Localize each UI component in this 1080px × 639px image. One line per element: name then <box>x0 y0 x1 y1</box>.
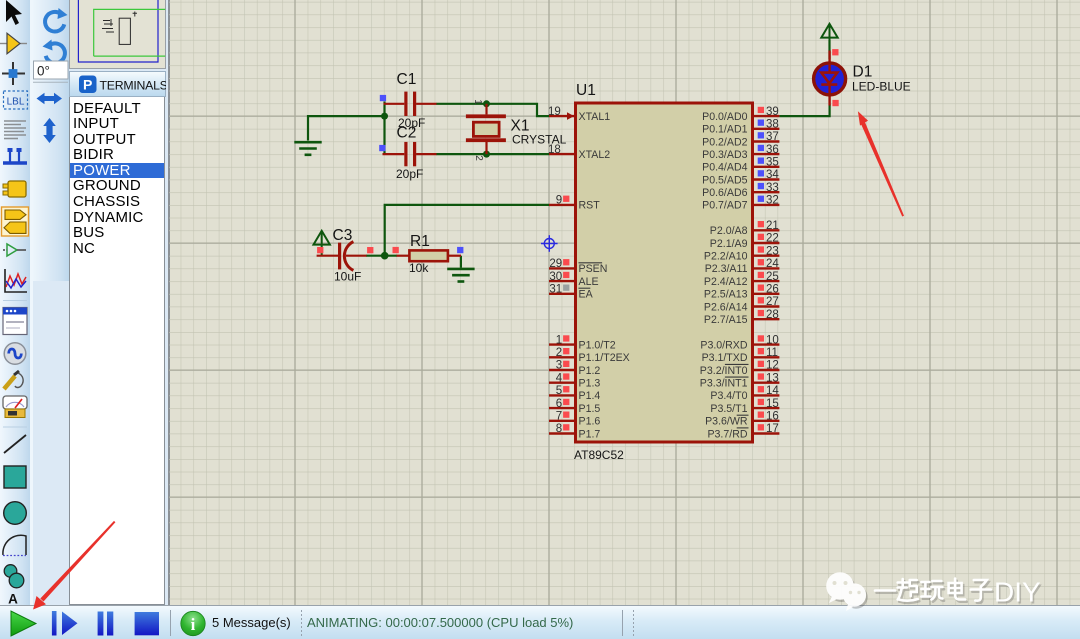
X1 pin number 1 <box>472 99 483 105</box>
X1 pin number 2 <box>473 155 484 161</box>
preview mini schematic <box>102 12 137 45</box>
wire net XTAL1 (C1 right to U1 pin19) <box>436 104 549 116</box>
C1 state square <box>380 95 386 101</box>
pin 15 P3.5/T1 (right) <box>710 398 779 415</box>
toolbar icon 2D box mode <box>4 466 26 488</box>
pin 16 P3.6/WR (right) <box>705 411 779 428</box>
D1 state square top <box>832 49 838 55</box>
junction node A (C1/C2/ground) <box>381 113 388 120</box>
toolbar icon terminals mode (selected) <box>2 207 29 236</box>
power terminal above C3 <box>314 231 330 256</box>
pin 11 P3.1/TXD (right) <box>702 347 780 364</box>
value 10uF <box>334 270 361 284</box>
pin 38 P0.1/AD1 (right) <box>702 119 779 136</box>
stop button <box>135 612 159 635</box>
toolbar icon component mode <box>0 33 27 54</box>
LED D1 <box>814 51 846 106</box>
pin 10 P3.0/RXD (right) <box>700 334 779 351</box>
rotate clockwise button <box>45 8 67 32</box>
pin 27 P2.6/A14 (right) <box>704 296 779 313</box>
svg-text:TERMINALS: TERMINALS <box>100 78 167 92</box>
preview view area (green) <box>94 9 166 56</box>
watermark text <box>875 577 1043 610</box>
step button <box>52 611 78 636</box>
R1 state square left <box>393 247 399 253</box>
label R1 <box>410 233 430 250</box>
value LED-BLUE <box>852 80 911 94</box>
origin marker <box>541 235 558 252</box>
annotation arrow 2 (to play button) <box>33 521 115 610</box>
pin 29 PSEN (left) <box>549 258 607 275</box>
label C3 <box>333 227 353 244</box>
pin 26 P2.5/A13 (right) <box>704 284 779 301</box>
pin 6 P1.5 (left) <box>549 398 600 415</box>
object selector list <box>69 97 165 605</box>
pin 8 P1.7 (left) <box>549 423 600 440</box>
toolbar icon voltage probe mode <box>4 371 23 389</box>
toolbar icon 2D text mode <box>8 592 18 607</box>
C3 state square left <box>317 247 323 253</box>
pin 13 P3.3/INT1 (right) <box>700 372 780 389</box>
toolbar icon tape recorder mode <box>3 308 27 335</box>
svg-text:P: P <box>83 77 92 93</box>
annotation arrow 1 (to LED) <box>858 111 904 216</box>
pin 9 RST (left) <box>549 195 600 212</box>
toolbar icon junction dot mode <box>2 62 25 85</box>
pin 33 P0.6/AD6 (right) <box>702 182 779 199</box>
pin 7 P1.6 (left) <box>549 411 600 428</box>
C2 state square <box>379 145 385 151</box>
pause button <box>98 612 114 636</box>
mirror vertical button <box>43 118 56 143</box>
overview preview panel <box>69 0 166 69</box>
toolbar separators <box>3 301 27 428</box>
toolbar icon instrument mode <box>3 396 27 418</box>
capacitor C2 <box>383 142 437 166</box>
wire to ground top-left <box>308 116 386 140</box>
toolbar icon selection cursor <box>6 0 22 25</box>
rotation angle box <box>33 61 68 82</box>
orientation toolbar column <box>32 0 69 281</box>
label U1 <box>576 82 596 99</box>
pin 2 P1.1/T2EX (left) <box>549 347 630 364</box>
value AT89C52 <box>574 448 624 462</box>
pin 31 EA (left) <box>549 284 594 301</box>
mirror horizontal button <box>37 93 63 104</box>
play button <box>11 611 36 636</box>
junction node B (C3/R1/RST) <box>381 252 389 260</box>
toolbar icon text script mode <box>4 121 26 139</box>
toolbar icon 2D arc mode <box>3 535 26 555</box>
pin 5 P1.4 (left) <box>549 385 600 402</box>
preview sheet border (blue) <box>78 0 158 62</box>
rotate anticlockwise button <box>43 40 65 64</box>
wire RST net (junction to U1 pin9) <box>385 205 549 256</box>
pin 12 P3.2/INT0 (right) <box>700 360 780 377</box>
R1 state square right <box>457 247 463 253</box>
toolbar icon graph mode <box>5 269 27 292</box>
pin 22 P2.1/A9 (right) <box>710 233 780 250</box>
pin 35 P0.4/AD4 (right) <box>702 157 779 174</box>
value CRYSTAL <box>512 133 567 147</box>
pin 14 P3.4/T0 (right) <box>710 385 779 402</box>
pin 36 P0.3/AD3 (right) <box>702 144 779 161</box>
toolbar icon 2D line mode <box>4 435 26 453</box>
pin 24 P2.3/A11 (right) <box>705 258 780 275</box>
pin 4 P1.3 (left) <box>549 372 600 389</box>
toolbar icon wire label mode <box>4 91 28 109</box>
junction node X1 pin1 <box>483 100 490 107</box>
label D1 <box>853 64 873 81</box>
pin 1 P1.0/T2 (left) <box>549 334 616 351</box>
grid pattern <box>169 0 1080 605</box>
crystal X1 <box>466 104 506 154</box>
toolbar icon 2D closed path mode <box>4 565 24 588</box>
pin 17 P3.7/RD (right) <box>707 423 779 440</box>
resistor R1 <box>397 250 462 261</box>
label C1 <box>397 71 417 88</box>
wire C3 to R1 segment <box>366 255 397 257</box>
D1 state square bottom <box>832 100 838 106</box>
value 20pF (C2) <box>396 167 423 181</box>
toolbar icon 2D circle mode <box>4 502 27 525</box>
pin 37 P0.2/AD2 (right) <box>702 131 779 148</box>
toolbar icon generator mode <box>4 343 26 365</box>
pin 3 P1.2 (left) <box>549 360 600 377</box>
pin 39 P0.0/AD0 (right) <box>702 106 779 123</box>
object selector header <box>69 71 166 97</box>
ground symbol near C1/C2 <box>294 142 321 155</box>
schematic editing area <box>169 0 1080 605</box>
wire U1 pin39 to LED D1 <box>779 105 829 117</box>
sidebar background <box>0 0 169 605</box>
toolbar icon subcircuit mode <box>3 181 26 197</box>
power terminal above D1 <box>821 24 837 59</box>
pin 34 P0.5/AD5 (right) <box>702 169 779 186</box>
value 10k <box>409 261 429 275</box>
pin 21 P2.0/A8 (right) <box>710 220 780 237</box>
capacitor C1 <box>384 92 437 116</box>
status bar <box>0 605 1080 639</box>
wire LED D1 top to power terminal <box>828 40 830 59</box>
toolbar column <box>0 0 32 605</box>
pin 18 XTAL2 (left) <box>548 144 610 161</box>
capacitor C3 (electrolytic) <box>317 242 367 271</box>
pin 25 P2.4/A12 (right) <box>704 271 779 288</box>
wire net XTAL2 (C2 right to U1 pin18) <box>436 153 549 155</box>
pin 30 ALE (left) <box>549 271 599 288</box>
label C2 <box>397 125 417 142</box>
pin 32 P0.7/AD7 (right) <box>702 195 779 212</box>
info icon <box>181 611 205 635</box>
C3 state square right <box>367 247 373 253</box>
op-amp U1 body (AT89C52) <box>576 103 753 442</box>
pin 28 P2.7/A15 (right) <box>704 309 779 326</box>
toolbar icon device pin mode <box>3 244 26 256</box>
pin 19 XTAL1 (left) <box>548 106 610 123</box>
wire C1-C2 left vertical <box>383 102 385 155</box>
label X1 <box>511 118 530 135</box>
value 20pF (C1) <box>398 116 425 130</box>
pin 23 P2.2/A10 (right) <box>704 245 779 262</box>
ground symbol near R1 <box>447 256 474 282</box>
junction node X1 pin2 <box>483 151 490 158</box>
toolbar icon buses mode <box>3 148 27 163</box>
